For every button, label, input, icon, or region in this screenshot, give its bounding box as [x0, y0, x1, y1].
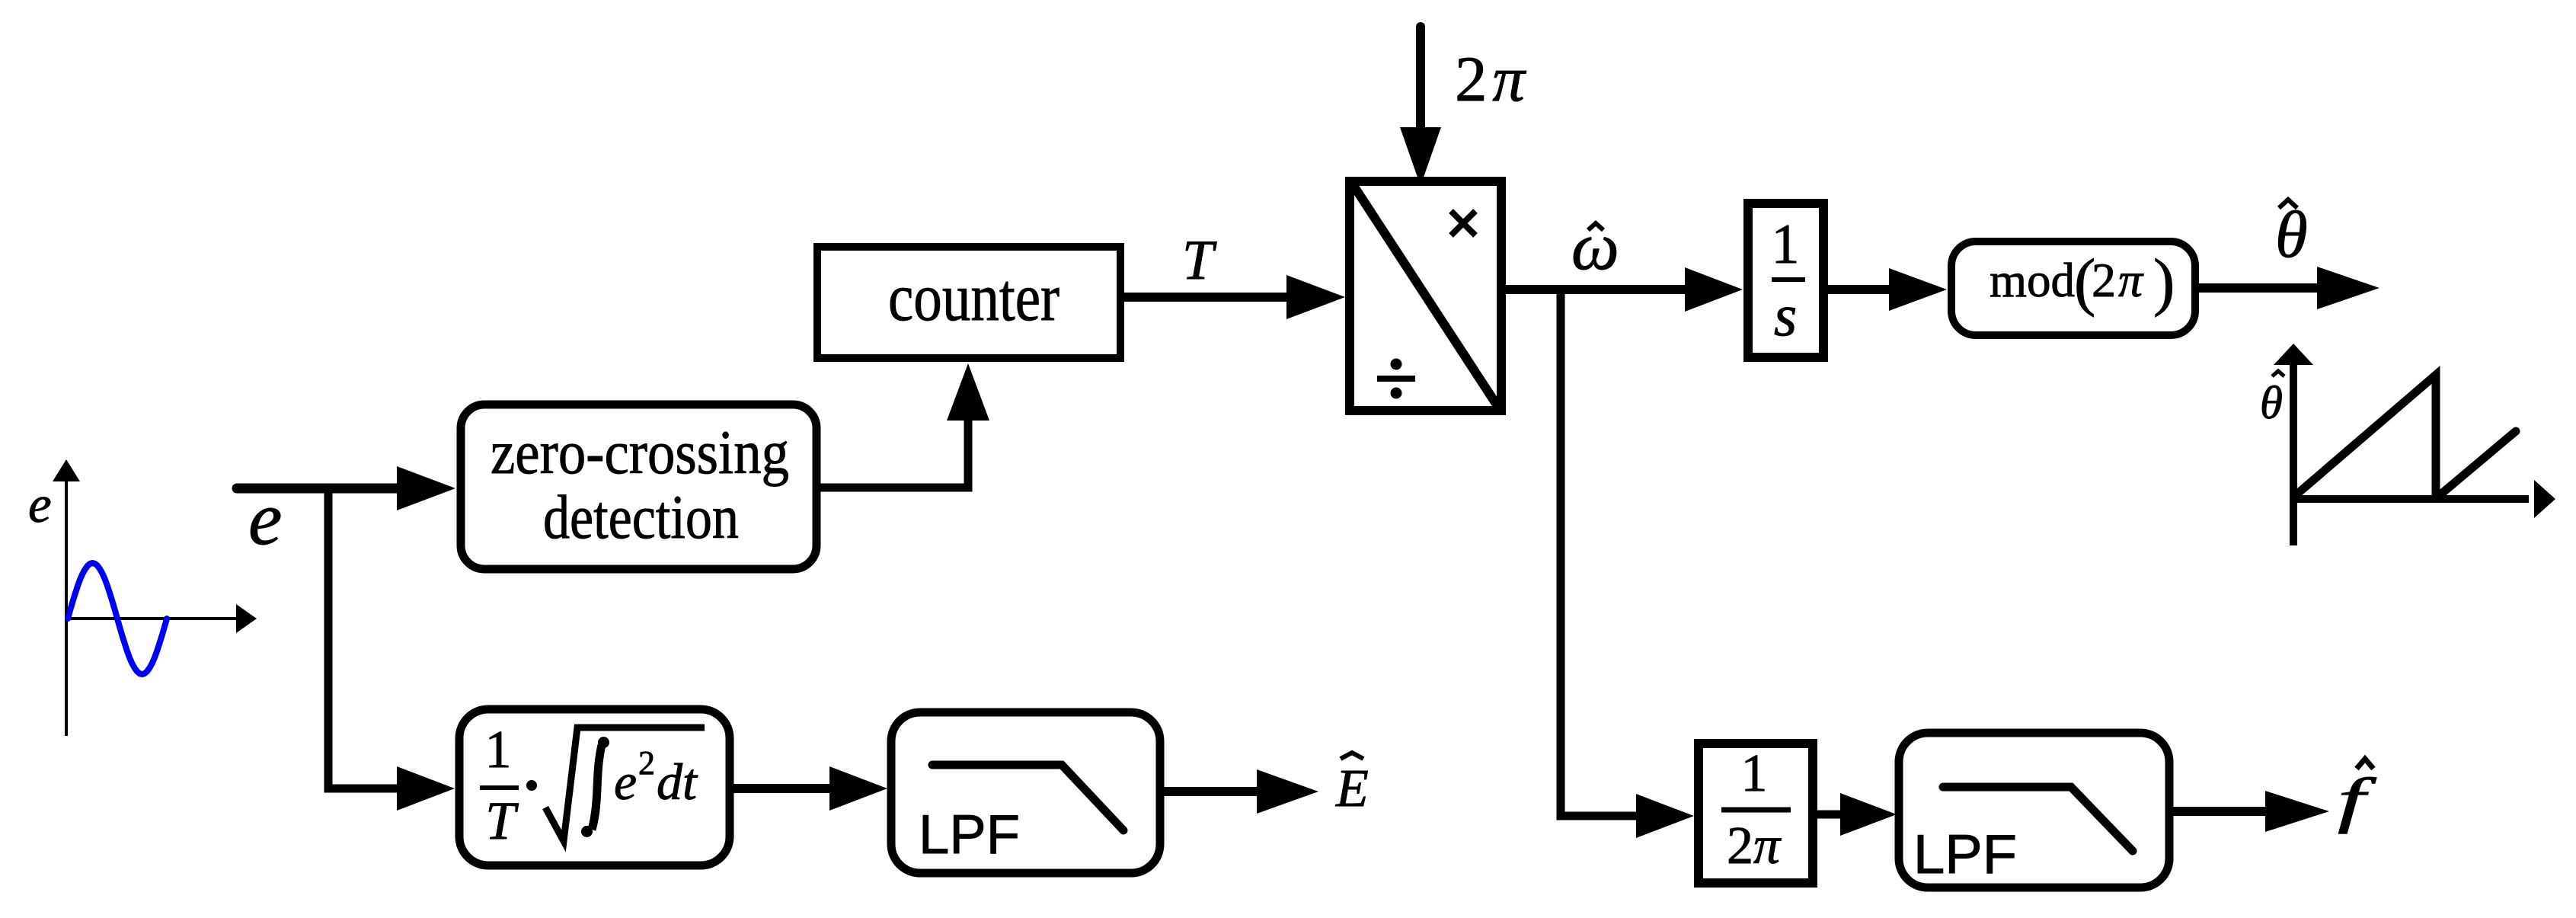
- svg-text:dt: dt: [657, 753, 698, 811]
- divide sign: [1377, 359, 1415, 399]
- multiply sign: [1451, 211, 1475, 235]
- wire LPF1 to E output: [1164, 787, 1258, 796]
- LPF1 response curve: [932, 765, 1123, 830]
- svg-text:2: 2: [638, 744, 655, 782]
- svg-text:1: 1: [1772, 213, 1800, 276]
- svg-text:T: T: [1182, 229, 1217, 292]
- sawtooth ramp 2: [2440, 431, 2516, 495]
- arrowhead into RMS box: [397, 766, 455, 811]
- wire LPF2 to f output: [2173, 807, 2267, 816]
- output arrowhead E: [1257, 769, 1318, 814]
- radical sign: [545, 728, 705, 841]
- zero-crossing detection box: [461, 405, 817, 569]
- mod(2pi) box: [1951, 241, 2195, 335]
- 2pi input wire: [1416, 27, 1425, 130]
- svg-text:e: e: [248, 476, 282, 561]
- svg-text:E: E: [1335, 760, 1369, 818]
- integral sign: [592, 745, 602, 830]
- arrowhead into LPF1: [829, 766, 887, 811]
- svg-text:counter: counter: [888, 261, 1059, 335]
- svg-text:1: 1: [1741, 744, 1768, 803]
- svg-text:LPF: LPF: [1913, 824, 2017, 885]
- svg-text:e: e: [28, 475, 52, 533]
- arrowhead into zero-crossing box: [397, 466, 455, 510]
- svg-text:e: e: [614, 753, 637, 811]
- arrowhead into mod box: [1889, 268, 1947, 311]
- sawtooth plot y-axis: [2274, 344, 2313, 545]
- svg-text:2π: 2π: [1727, 817, 1782, 875]
- arrowhead into 1/s: [1685, 267, 1743, 312]
- omega-hat label: [1571, 210, 1619, 284]
- wire RMS to LPF1: [733, 784, 831, 793]
- svg-text:T: T: [485, 792, 519, 851]
- output arrowhead f: [2265, 791, 2329, 832]
- sawtooth label theta-hat: [2260, 371, 2284, 429]
- arrowhead down into divider: [1400, 127, 1441, 186]
- wire e input: [237, 484, 398, 494]
- svg-text:zero-crossing: zero-crossing: [491, 417, 789, 487]
- wire branch down from node e: [328, 488, 398, 788]
- svg-text:mod: mod: [1990, 253, 2075, 307]
- svg-text:2: 2: [2092, 253, 2116, 307]
- svg-text:LPF: LPF: [919, 804, 1020, 865]
- 1/2pi fraction bar: [1721, 808, 1791, 813]
- sawtooth ramp 1: [2296, 375, 2436, 497]
- svg-text:θ: θ: [2260, 378, 2283, 429]
- output arrowhead theta: [2317, 267, 2379, 309]
- wire counter to divider: [1124, 293, 1288, 302]
- mini input plot x-axis: [66, 604, 257, 633]
- RMS fraction bar: [480, 785, 519, 790]
- LPF2 response curve: [1943, 787, 2133, 851]
- LPF2 box: [1899, 733, 2169, 888]
- svg-text:): ): [2153, 246, 2175, 318]
- arrowhead up into counter: [947, 363, 989, 421]
- counter box: [817, 247, 1120, 358]
- divider diagonal: [1353, 184, 1499, 408]
- blue sine wave: [68, 563, 167, 674]
- 1/s fraction bar: [1772, 277, 1805, 282]
- divider block: [1350, 181, 1501, 411]
- theta-hat label: [2275, 197, 2308, 271]
- mini input plot y-axis: [53, 459, 80, 736]
- svg-text:s: s: [1774, 282, 1797, 348]
- wire zc to counter: [817, 419, 968, 488]
- svg-text:detection: detection: [543, 482, 739, 552]
- svg-text:1: 1: [485, 721, 512, 779]
- wire divider to 1/s: [1506, 285, 1686, 294]
- LPF1 box: [891, 712, 1160, 873]
- wire mod to output: [2199, 283, 2319, 293]
- arrowhead into 1/2pi box: [1636, 794, 1694, 838]
- f-hat label: [2338, 759, 2377, 834]
- arrowhead into LPF2: [1840, 793, 1897, 836]
- sawtooth plot x-axis: [2293, 480, 2555, 518]
- arrowhead into divider: [1286, 275, 1345, 319]
- multiplication dot: [526, 780, 537, 791]
- svg-text:π: π: [2118, 253, 2144, 307]
- wire branch down from omega node: [1561, 291, 1638, 816]
- wire 1/s to mod: [1828, 285, 1890, 294]
- 1/2pi box: [1699, 744, 1813, 883]
- wire 1/2pi to LPF2: [1813, 811, 1842, 819]
- E-hat label: [1335, 753, 1369, 818]
- RMS box: [459, 709, 730, 865]
- integrator 1/s box: [1748, 203, 1823, 357]
